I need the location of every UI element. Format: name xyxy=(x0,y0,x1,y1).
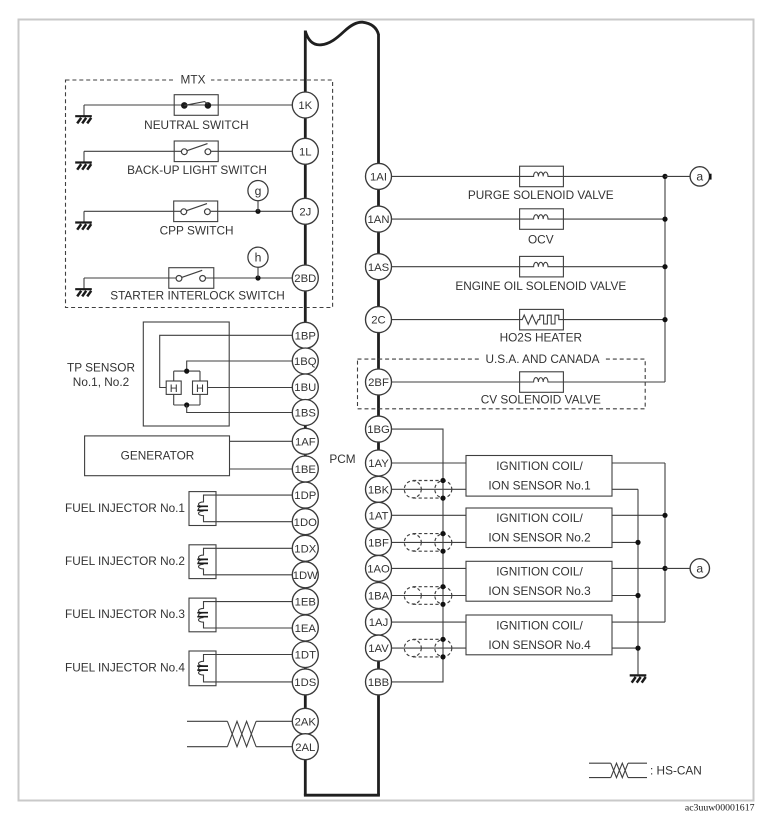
pin 1BA (right) xyxy=(366,583,392,609)
junction: drain to shield bottom xyxy=(440,549,445,554)
svg-text:H: H xyxy=(196,383,204,395)
pin 1AN (right) xyxy=(366,206,392,232)
junction on A2 at coil No.2 xyxy=(662,513,667,518)
junction: drain to shield top xyxy=(440,531,445,536)
wire: pin to ignition coil No.1 (signal) xyxy=(392,462,467,464)
svg-text:1BP: 1BP xyxy=(295,330,316,342)
generator box xyxy=(85,436,230,476)
svg-text:IGNITION COIL/: IGNITION COIL/ xyxy=(496,511,583,525)
pin 1DP xyxy=(292,482,318,508)
svg-text:U.S.A. AND CANADA: U.S.A. AND CANADA xyxy=(485,352,599,366)
wire: junction up to node h xyxy=(257,267,259,278)
svg-text:TP SENSOR: TP SENSOR xyxy=(67,360,135,374)
pin 1EB xyxy=(292,589,318,615)
svg-text:IGNITION COIL/: IGNITION COIL/ xyxy=(496,459,583,473)
junction on A2 at coil No.3 xyxy=(662,566,667,571)
ground G5 (ignition coils) xyxy=(630,675,647,682)
MTX dashed enclosure box xyxy=(66,80,333,308)
ignition coil/ion sensor No.2 box xyxy=(466,508,612,548)
svg-text:ac3uuw00001617: ac3uuw00001617 xyxy=(685,803,755,814)
HO2S heater box xyxy=(520,309,564,330)
U.S.A. AND CANADA dashed box xyxy=(358,359,646,409)
wire: CPP switch row left xyxy=(84,210,181,212)
svg-text:1AJ: 1AJ xyxy=(369,617,388,629)
junction on 2J row xyxy=(255,209,260,214)
node h xyxy=(248,247,268,267)
wire: twist strand B xyxy=(227,721,256,746)
junction: drain to shield bottom xyxy=(440,602,445,607)
switch box: back-up light switch xyxy=(174,141,218,162)
wire: drop to ground G4 xyxy=(83,278,85,290)
wire: pin to ignition coil No.3 (shielded) xyxy=(392,595,467,597)
junction: drain to shield top xyxy=(440,637,445,642)
svg-text:1BF: 1BF xyxy=(368,538,389,550)
svg-text:1AO: 1AO xyxy=(367,564,390,576)
shielded cable symbol at y=542.4 xyxy=(404,534,452,552)
svg-text:2BF: 2BF xyxy=(368,377,389,389)
svg-text:1BA: 1BA xyxy=(368,591,390,603)
wire: generator to pin 1AF xyxy=(230,440,293,442)
svg-text:ENGINE OIL SOLENOID VALVE: ENGINE OIL SOLENOID VALVE xyxy=(455,279,626,293)
svg-text:1DW: 1DW xyxy=(293,570,318,582)
svg-text:1BU: 1BU xyxy=(294,382,316,394)
svg-text:CV SOLENOID VALVE: CV SOLENOID VALVE xyxy=(481,393,601,407)
svg-text:2C: 2C xyxy=(371,315,385,327)
pin 1AY (right) xyxy=(366,450,392,476)
wire: right collector line (solenoid group) xyxy=(664,176,666,382)
svg-text:FUEL INJECTOR No.2: FUEL INJECTOR No.2 xyxy=(65,554,185,568)
svg-text:1K: 1K xyxy=(298,100,312,112)
pin 1L xyxy=(292,138,318,164)
svg-text:STARTER INTERLOCK SWITCH: STARTER INTERLOCK SWITCH xyxy=(110,288,285,302)
wire: row through solenoid coil xyxy=(392,215,666,219)
pin 1BP xyxy=(292,322,318,348)
wire: collector to node a (top) xyxy=(665,175,690,177)
node a (top) xyxy=(690,167,709,186)
pin 1BQ xyxy=(292,348,318,374)
injector No.4 core bars xyxy=(197,666,208,670)
ground G3 (CPP switch) xyxy=(75,223,92,230)
pin 1DO xyxy=(292,509,318,535)
junction on bottom rail xyxy=(184,402,189,407)
injector No.3 core bars xyxy=(197,613,208,617)
pin 1AI (right) xyxy=(366,163,392,189)
label MTX xyxy=(175,75,211,86)
CPP switch contacts (open) xyxy=(181,204,210,215)
pin 1BK (right) xyxy=(366,476,392,502)
pin 2BD xyxy=(292,265,318,291)
wire: starter interlock switch row left xyxy=(84,277,176,279)
label U.S.A. AND CANADA xyxy=(481,354,604,365)
svg-text:1EB: 1EB xyxy=(295,597,316,609)
wire: coil No.3 ground to line B xyxy=(612,595,638,597)
wire: drop to ground G2 xyxy=(83,151,85,163)
svg-text:1BE: 1BE xyxy=(295,464,317,476)
ignition coil/ion sensor No.1 box xyxy=(466,456,612,497)
pin 1AO (right) xyxy=(366,555,392,581)
solenoid box: CV SOLENOID VALVE xyxy=(520,372,564,393)
pin 1BF (right) xyxy=(366,529,392,555)
wire: drop to ground G1 xyxy=(83,105,85,117)
wire: pin to ignition coil No.2 (shielded) xyxy=(392,541,467,543)
svg-text:FUEL INJECTOR No.3: FUEL INJECTOR No.3 xyxy=(65,607,185,621)
junction on collector at y=219.1 xyxy=(662,217,667,222)
wire: harness break squiggle at top xyxy=(305,22,378,45)
wire+coil: injector No.1 winding path xyxy=(199,495,293,522)
wire: junction up to node g xyxy=(257,201,259,212)
pin 1AF xyxy=(292,428,318,454)
svg-text:2AK: 2AK xyxy=(295,716,317,728)
svg-text:BACK-UP LIGHT SWITCH: BACK-UP LIGHT SWITCH xyxy=(127,163,267,177)
wire+coil: injector No.3 winding path xyxy=(198,602,292,628)
legend twist strand B xyxy=(611,763,628,777)
pin 1DX xyxy=(292,535,318,561)
wire: coil No.4 supply to collector A2 xyxy=(612,621,665,623)
starter interlock switch contacts (open) xyxy=(176,270,205,281)
fuel injector No.4 box xyxy=(189,651,216,686)
svg-text:NEUTRAL SWITCH: NEUTRAL SWITCH xyxy=(144,118,248,132)
pin 1AS (right) xyxy=(366,254,392,280)
wire: coil No.2 ground to line B xyxy=(612,541,638,543)
svg-text:ION SENSOR No.3: ION SENSOR No.3 xyxy=(488,584,591,598)
pin 2J xyxy=(292,198,318,224)
wire: ground line B (ignition group) xyxy=(637,489,639,674)
svg-text:OCV: OCV xyxy=(528,233,554,247)
junction: drain to shield bottom xyxy=(440,496,445,501)
junction on B at coil No.2 xyxy=(635,540,640,545)
svg-text:a: a xyxy=(696,562,703,576)
wire: bottom rail to pin 1BS xyxy=(187,405,292,413)
wire: neutral switch row to pin 1K xyxy=(84,104,292,106)
svg-text:1DS: 1DS xyxy=(294,677,316,689)
wire: 2C row through heater element xyxy=(392,315,666,324)
junction on collector at y=319.6 xyxy=(662,317,667,322)
fuel injector No.2 box xyxy=(189,545,216,579)
pin 2AL xyxy=(292,734,318,760)
wire: top rail of hall bridge xyxy=(174,371,200,381)
wire: row through solenoid coil xyxy=(392,262,666,266)
wire: shield drain 1BG to 1BB xyxy=(392,429,444,682)
junction on collector at y=176.4 xyxy=(662,174,667,179)
pin 1BB (right) xyxy=(366,669,392,695)
svg-text:1AF: 1AF xyxy=(295,436,316,448)
junction on 2BD row xyxy=(255,275,260,280)
pin 2AK xyxy=(292,708,318,734)
svg-text:a: a xyxy=(696,170,703,184)
svg-text:1BB: 1BB xyxy=(368,677,389,689)
TP sensor outer box xyxy=(143,322,229,426)
svg-text:1AI: 1AI xyxy=(370,172,387,184)
switch box: starter interlock switch xyxy=(169,268,214,289)
solenoid box: PURGE SOLENOID VALVE xyxy=(520,166,564,187)
svg-text:2BD: 2BD xyxy=(294,273,316,285)
junction on top rail xyxy=(184,369,189,374)
svg-text:IGNITION COIL/: IGNITION COIL/ xyxy=(496,565,583,579)
svg-text:1EA: 1EA xyxy=(295,623,317,635)
wire: coil No.3 supply to collector A2 xyxy=(612,567,665,569)
svg-text:1DT: 1DT xyxy=(295,650,316,662)
wire: pin to ignition coil No.1 (shielded) xyxy=(392,488,467,490)
svg-text:1DP: 1DP xyxy=(294,490,316,502)
svg-text:PURGE SOLENOID VALVE: PURGE SOLENOID VALVE xyxy=(468,188,614,202)
node g xyxy=(248,181,268,201)
wire: collector line A2 (ignition group) xyxy=(664,463,666,622)
pin 2C (right) xyxy=(366,307,392,333)
pin 1BU xyxy=(292,374,318,400)
svg-text:ION SENSOR No.4: ION SENSOR No.4 xyxy=(488,638,591,652)
svg-text:CPP SWITCH: CPP SWITCH xyxy=(160,223,234,237)
ground G4 (starter interlock switch) xyxy=(75,289,92,296)
svg-text:1AS: 1AS xyxy=(368,262,390,274)
ground G1 (neutral switch) xyxy=(75,116,92,123)
junction on B at coil No.4 xyxy=(635,646,640,651)
solenoid box: ENGINE OIL SOLENOID VALVE xyxy=(520,256,564,277)
pin 2BF (right) xyxy=(366,369,392,395)
svg-text:MTX: MTX xyxy=(181,73,206,87)
wire: bottom rail of hall bridge xyxy=(174,394,200,405)
solenoid box: OCV xyxy=(520,209,564,230)
svg-text:1AT: 1AT xyxy=(369,510,389,522)
pin 1BS xyxy=(292,400,318,426)
svg-text:1AN: 1AN xyxy=(368,214,390,226)
pin 1AV (right) xyxy=(366,635,392,661)
wire: pin to ignition coil No.4 (signal) xyxy=(392,621,467,623)
svg-text:1AV: 1AV xyxy=(368,643,389,655)
shielded cable symbol at y=595.5 xyxy=(404,587,452,605)
wire: pin 1BP to left hall element xyxy=(160,335,292,387)
svg-text:2J: 2J xyxy=(299,206,311,218)
svg-text:1AY: 1AY xyxy=(368,458,389,470)
pin 1EA xyxy=(292,615,318,641)
injector No.2 core bars xyxy=(197,559,208,563)
injector No.1 core bars xyxy=(197,506,208,510)
continuation tick at node a (top) xyxy=(709,174,711,180)
pin 1DW xyxy=(292,562,318,588)
wire: PCM left bus (vertical) xyxy=(304,31,307,796)
svg-text:1DX: 1DX xyxy=(294,543,316,555)
svg-text:: HS-CAN: : HS-CAN xyxy=(650,763,702,777)
shielded cable symbol at y=489.3 xyxy=(404,481,452,499)
wire+coil: injector No.4 winding path xyxy=(198,655,292,682)
junction: drain to shield top xyxy=(440,478,445,483)
pin 1K xyxy=(292,92,318,118)
back-up light switch contacts (open) xyxy=(181,144,210,155)
svg-text:1BK: 1BK xyxy=(368,484,390,496)
switch box: neutral switch xyxy=(174,95,218,116)
wire: twisted pair to pins 2AK/2AL xyxy=(187,721,292,746)
svg-text:No.1, No.2: No.1, No.2 xyxy=(73,375,129,389)
junction: drain to shield bottom xyxy=(440,654,445,659)
wire: pin 1BQ to top rail xyxy=(187,361,292,371)
svg-text:1BS: 1BS xyxy=(295,408,317,420)
wire: coil No.1 supply to collector A2 xyxy=(612,462,665,464)
svg-text:1L: 1L xyxy=(299,146,312,158)
wire: pin to ignition coil No.3 (signal) xyxy=(392,567,467,569)
svg-text:IGNITION COIL/: IGNITION COIL/ xyxy=(496,618,583,632)
shielded cable symbol at y=648.1 xyxy=(404,639,452,657)
wire: bottom connector joining buses xyxy=(304,794,380,797)
junction on B at coil No.3 xyxy=(635,593,640,598)
junction on collector at y=266.7 xyxy=(662,264,667,269)
svg-text:ION SENSOR No.1: ION SENSOR No.1 xyxy=(488,479,590,493)
ground G2 (back-up light switch) xyxy=(75,163,92,170)
wire: coil No.1 ground to line B xyxy=(612,488,638,490)
wire: pin to ignition coil No.2 (signal) xyxy=(392,514,467,516)
svg-text:ION SENSOR No.2: ION SENSOR No.2 xyxy=(488,531,590,545)
pin 1AJ (right) xyxy=(366,609,392,635)
fuel injector No.1 box xyxy=(189,492,216,526)
wire: pin to ignition coil No.4 (shielded) xyxy=(392,647,467,649)
wire: PCM right bus (vertical) xyxy=(377,34,380,795)
hall element H (left) xyxy=(166,381,181,394)
svg-text:H: H xyxy=(170,383,178,395)
svg-text:FUEL INJECTOR No.4: FUEL INJECTOR No.4 xyxy=(65,661,185,675)
hall element H (right) xyxy=(193,381,208,394)
wire: right hall element to pin 1BU xyxy=(208,387,293,389)
wire+coil: injector No.2 winding path xyxy=(198,548,292,575)
ignition coil/ion sensor No.3 box xyxy=(466,561,612,601)
svg-text:GENERATOR: GENERATOR xyxy=(121,448,195,462)
wire: back-up light switch row right to pin 1L xyxy=(211,150,292,152)
wire: starter interlock switch row right to pin 2BD xyxy=(206,277,292,279)
switch box: CPP switch xyxy=(174,201,218,222)
legend: HS-CAN twisted pair symbol xyxy=(589,763,647,777)
svg-text:h: h xyxy=(255,250,262,264)
node a (lower) xyxy=(690,559,709,578)
wire: A2 to node a (lower) xyxy=(665,567,690,569)
pin 1BG (right) xyxy=(366,416,392,442)
legend twist strand A xyxy=(611,763,628,777)
svg-text:2AL: 2AL xyxy=(295,742,315,754)
wire: coil No.4 ground to line B xyxy=(612,647,638,649)
pin 1DT xyxy=(292,642,318,668)
svg-text:FUEL INJECTOR No.1: FUEL INJECTOR No.1 xyxy=(65,501,185,515)
svg-text:g: g xyxy=(255,184,262,198)
pin 1DS xyxy=(292,669,318,695)
neutral switch contacts (closed) xyxy=(181,102,211,109)
wire: row through solenoid coil xyxy=(392,172,666,176)
wire: back-up light switch row left xyxy=(84,150,181,152)
wire: CPP switch row right to pin 2J xyxy=(211,210,292,212)
wire: coil No.2 supply to collector A2 xyxy=(612,514,665,516)
wire: row through solenoid coil xyxy=(392,378,666,382)
svg-text:HO2S HEATER: HO2S HEATER xyxy=(500,331,582,345)
ignition coil/ion sensor No.4 box xyxy=(466,615,612,655)
pin 1BE xyxy=(292,456,318,482)
wire: drop to ground G3 xyxy=(83,211,85,223)
wire: generator to pin 1BE xyxy=(230,468,293,470)
svg-text:1BQ: 1BQ xyxy=(294,356,317,368)
pin 1AT (right) xyxy=(366,502,392,528)
wire: twist strand A xyxy=(227,721,256,746)
junction: drain to shield top xyxy=(440,584,445,589)
svg-text:1DO: 1DO xyxy=(294,517,317,529)
fuel injector No.3 box xyxy=(189,598,216,632)
svg-text:PCM: PCM xyxy=(329,452,355,466)
svg-text:1BG: 1BG xyxy=(367,424,390,436)
